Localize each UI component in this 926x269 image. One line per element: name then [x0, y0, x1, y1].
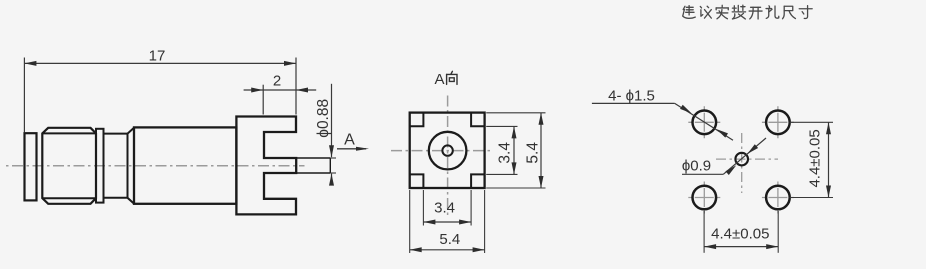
corner square bottom-right	[471, 174, 485, 188]
svg-text:A: A	[434, 71, 444, 88]
dim 5.4 vertical line	[540, 113, 542, 188]
center hole centermark horizontal	[716, 158, 778, 160]
svg-text:4.4±0.05: 4.4±0.05	[711, 226, 769, 243]
mounting hole bottom-left	[693, 186, 717, 210]
svg-text:2: 2	[273, 73, 281, 90]
dim 17/2 extension line right	[295, 58, 297, 115]
dim phi0.88 leader line	[331, 84, 333, 157]
dim 3.4 bottom line	[423, 221, 471, 223]
dim 4.4 vertical line	[828, 122, 830, 197]
mounting hole bottom-right	[766, 186, 790, 210]
hex nut body	[42, 128, 96, 204]
svg-text:3.4: 3.4	[434, 200, 455, 217]
corner square bottom-left	[410, 174, 424, 188]
dim phi0.88 ext lines	[330, 157, 336, 159]
corner square top-right	[471, 113, 485, 127]
svg-text:4- ϕ1.5: 4- ϕ1.5	[608, 88, 655, 105]
svg-text:ϕ0.9: ϕ0.9	[682, 158, 711, 175]
svg-text:A: A	[344, 132, 355, 149]
connector interface cap	[25, 133, 37, 200]
corner square top-left	[410, 113, 424, 127]
A-view horizontal centerline	[391, 150, 490, 152]
dim 5.4 bottom line	[410, 249, 485, 251]
center hole centermark vertical	[741, 133, 743, 193]
svg-text:3.4: 3.4	[496, 142, 513, 164]
glyph xiang 向	[447, 71, 457, 84]
center pin	[296, 157, 330, 159]
chamfer to body bottom	[128, 198, 135, 204]
svg-text:5.4: 5.4	[439, 231, 460, 248]
dim 3.4 vertical ext lines	[486, 125, 517, 127]
centerline left view	[6, 165, 305, 167]
center hole phi0.9	[735, 153, 748, 166]
A-view outer circle	[429, 132, 467, 170]
mounting hole top-left	[693, 111, 717, 135]
A-view vertical centerline	[447, 96, 449, 219]
title glyphs 建议安装开孔尺寸 (drawn strokes)	[683, 5, 812, 19]
dim 4.4 bottom ext lines	[703, 211, 705, 253]
main cylindrical body	[134, 127, 236, 203]
svg-text:5.4: 5.4	[524, 142, 541, 164]
dim 2 line	[244, 89, 317, 91]
A-view pin hole circle	[442, 145, 452, 155]
dim 17 extension line left	[23, 58, 25, 133]
svg-text:17: 17	[149, 48, 166, 65]
dim 4.4 vertical ext lines	[790, 121, 834, 123]
hex facet line bottom	[42, 197, 96, 199]
mounting hole top-left centermark	[688, 121, 720, 123]
dim 17 line	[24, 62, 296, 64]
dim 3.4 vertical line	[513, 126, 515, 174]
dim 5.4 vertical ext lines	[486, 112, 545, 114]
mounting hole top-right	[766, 111, 790, 135]
dim 2 extension line	[262, 85, 264, 115]
dim 5.4 bottom ext lines	[409, 190, 411, 253]
view direction arrow A	[337, 148, 366, 150]
A-view outer square	[410, 113, 485, 188]
dim 4.4 bottom line	[704, 246, 778, 248]
mounting hole bottom-left centermark	[688, 197, 720, 199]
chamfer to body top	[128, 128, 135, 134]
flange with legs and center contact (E shape)	[236, 117, 296, 215]
hex facet line top	[42, 132, 96, 134]
mounting hole bottom-right centermark	[762, 197, 794, 199]
mounting hole top-right centermark	[762, 121, 794, 123]
svg-text:ϕ0.88: ϕ0.88	[315, 99, 332, 138]
neck section	[104, 133, 128, 135]
washer ring	[96, 129, 104, 203]
dim 3.4 bottom ext lines	[422, 190, 424, 226]
svg-text:4.4±0.05: 4.4±0.05	[807, 129, 824, 187]
